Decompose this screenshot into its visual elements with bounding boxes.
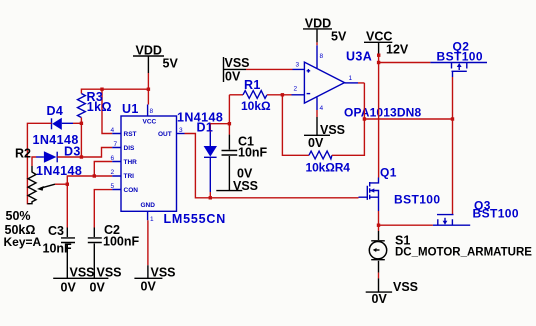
transistor Q2 (430, 40, 487, 78)
wire motor node to Q3 (379, 224, 433, 226)
transistor Q1 (359, 166, 441, 212)
svg-text:100nF: 100nF (103, 235, 139, 249)
ground VSS (C2) (80, 266, 121, 295)
svg-text:0V: 0V (61, 281, 77, 295)
wire D4 anode to R3/vertical (73, 122, 81, 124)
node junction J4 (80, 155, 83, 158)
svg-text:2: 2 (294, 86, 298, 93)
resistor R4 (306, 151, 351, 174)
svg-text:3: 3 (296, 62, 300, 69)
wire wiper to timing node (55, 183, 67, 185)
svg-text:5: 5 (111, 183, 115, 190)
svg-text:S1: S1 (395, 234, 410, 248)
wire D4 cathode to R2 bottom (27, 123, 51, 203)
node junction J2 (147, 88, 150, 91)
diode D1 (177, 111, 223, 198)
wire VSS to op-amp +in (246, 68, 293, 70)
svg-text:CON: CON (124, 187, 139, 194)
node junction J10 (363, 117, 366, 120)
op-amp 555 timer U1 box (111, 102, 227, 226)
svg-text:3: 3 (179, 127, 183, 134)
resistor R1 (229, 78, 271, 113)
wire R1 right to op-amp -in (267, 94, 292, 96)
svg-text:D4: D4 (47, 104, 64, 118)
svg-text:12V: 12V (386, 43, 409, 57)
capacitor C2 (88, 223, 140, 266)
node junction J6 (66, 183, 69, 186)
svg-text:VSS: VSS (225, 56, 250, 70)
wire R1 left down to C1 (228, 95, 230, 135)
node junction J1 (100, 88, 103, 91)
node junction J12 (377, 61, 380, 64)
svg-text:GND: GND (141, 202, 156, 209)
wire D3 cathode to DIS (57, 148, 112, 158)
svg-text:5V: 5V (163, 57, 179, 71)
svg-text:8: 8 (150, 108, 154, 115)
node junction J11 (451, 117, 454, 120)
capacitor C1 (222, 135, 268, 178)
node junction J7 (209, 196, 212, 199)
svg-text:U1: U1 (122, 102, 139, 116)
svg-text:0V: 0V (225, 70, 241, 84)
svg-text:TRI: TRI (124, 173, 135, 180)
svg-text:6: 6 (111, 155, 115, 162)
svg-text:DC_MOTOR_ARMATURE: DC_MOTOR_ARMATURE (395, 247, 532, 259)
power VDD (top left) (133, 44, 178, 74)
svg-text:LM555CN: LM555CN (164, 212, 227, 226)
svg-text:U3A: U3A (346, 50, 372, 64)
ground VSS (C1) (216, 167, 258, 194)
svg-text:R2: R2 (15, 147, 31, 161)
power VCC (12V) (364, 30, 409, 57)
wire THR drop (94, 162, 112, 177)
power VSS (op-amp bottom) (304, 110, 345, 150)
svg-text:VCC: VCC (143, 119, 157, 126)
svg-text:R1: R1 (244, 78, 261, 92)
svg-text:VSS: VSS (97, 266, 122, 280)
ground VSS (U1) (134, 265, 175, 293)
wire CON to C2 (94, 190, 112, 228)
svg-text:10nF: 10nF (43, 242, 73, 256)
wire Q2 gate down to Q3 gate (452, 77, 454, 215)
node junction J13 (377, 224, 380, 227)
svg-text:7: 7 (114, 141, 118, 148)
svg-text:1: 1 (349, 75, 353, 82)
svg-text:OPA1013DN8: OPA1013DN8 (344, 106, 421, 120)
svg-text:50%: 50% (6, 209, 31, 223)
motor S1 (369, 225, 532, 278)
svg-text:4: 4 (111, 127, 115, 134)
svg-text:D1: D1 (197, 121, 214, 135)
svg-text:THR: THR (124, 159, 138, 166)
potentiometer R2 (4, 147, 56, 250)
diode D4 (33, 104, 79, 147)
wire -in feedback down to R4 (282, 95, 309, 156)
wire VDD to U1 VCC (147, 73, 149, 105)
diode D3 (36, 145, 82, 179)
svg-text:Key=A: Key=A (4, 235, 42, 249)
svg-text:BST100: BST100 (473, 207, 519, 221)
capacitor C3 (43, 224, 76, 266)
wire VDD branch to R3 top (81, 89, 147, 93)
svg-text:DIS: DIS (124, 145, 136, 152)
svg-text:Q1: Q1 (380, 166, 397, 180)
svg-text:VSS: VSS (70, 266, 95, 280)
node junction J8 (228, 122, 231, 125)
svg-text:VSS: VSS (151, 266, 176, 280)
node junction J5 (93, 174, 96, 177)
wire branch to RST (102, 89, 112, 133)
wire VCC down to Q1 drain (378, 54, 380, 177)
transistor Q3 (433, 199, 519, 226)
svg-text:VCC: VCC (366, 30, 392, 44)
svg-text:1kΩ: 1kΩ (87, 100, 112, 114)
svg-text:0V: 0V (308, 136, 324, 150)
wire R2 top to D3 anode (32, 157, 36, 166)
wire R4 right up to op-amp output (332, 83, 365, 155)
svg-text:BST100: BST100 (394, 193, 440, 207)
node junction J9 (281, 93, 284, 96)
svg-text:RST: RST (124, 131, 137, 138)
wire D1 top to R1/C1 node (210, 123, 229, 125)
power VSS (op-amp +in, rotated) (224, 56, 250, 84)
node junction J3 (80, 122, 83, 125)
svg-text:10nF: 10nF (238, 146, 268, 160)
wire timing node: TRI/THR rail (67, 176, 112, 228)
svg-text:2: 2 (111, 169, 115, 176)
wire output to Q2/Q3 gates (364, 118, 452, 120)
svg-text:OUT: OUT (158, 131, 172, 138)
svg-text:VSS: VSS (233, 179, 258, 193)
svg-text:1: 1 (150, 216, 154, 223)
wire U1 OUT rail to Q1 gate (185, 134, 359, 198)
power VDD (op-amp) (303, 17, 347, 46)
svg-text:8: 8 (320, 53, 324, 60)
node junction at VCC lead (377, 54, 380, 57)
svg-text:VSS: VSS (320, 123, 345, 137)
wire Q1 source to motor node (378, 211, 380, 225)
ground VSS (motor) (366, 278, 418, 306)
wire U1 GND to VSS (147, 220, 149, 265)
svg-text:5V: 5V (331, 30, 347, 44)
svg-text:BST100: BST100 (437, 50, 483, 64)
svg-text:0V: 0V (90, 281, 106, 295)
op-amp U3A (292, 45, 422, 119)
ground VSS (C3) (53, 266, 94, 295)
resistor R3 (78, 90, 112, 118)
pin stubs (112, 134, 121, 190)
svg-text:0V: 0V (141, 280, 157, 294)
svg-text:10kΩR4: 10kΩR4 (306, 161, 351, 175)
svg-text:0V: 0V (372, 292, 388, 306)
svg-text:10kΩ: 10kΩ (241, 99, 271, 113)
wire R3 bottom to D3 line (80, 118, 82, 158)
svg-text:VSS: VSS (393, 280, 418, 294)
svg-text:C3: C3 (48, 224, 64, 238)
wire VCC to Q2 source (379, 62, 431, 64)
svg-text:4: 4 (320, 105, 324, 112)
